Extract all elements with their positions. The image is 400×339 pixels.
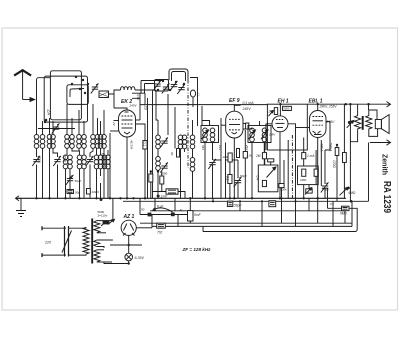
secondary winding heater2 [94, 250, 100, 262]
osc lower resistor a [149, 174, 153, 182]
row2 coil Ld3 [77, 155, 82, 169]
rf coil Lb3 [77, 135, 82, 149]
rf coil Lb1 [65, 135, 70, 149]
svg-text:280V, 255V: 280V, 255V [319, 104, 338, 108]
row2 coil Lf1 [102, 155, 107, 169]
svg-text:100: 100 [223, 155, 228, 159]
osc trimmer 3 [170, 81, 178, 91]
cap 50pF on bus2 [227, 201, 232, 206]
svg-text:0,1: 0,1 [330, 202, 335, 206]
left resistor comp [87, 189, 91, 195]
svg-text:6MΩ: 6MΩ [349, 191, 356, 195]
T1 wires [202, 121, 213, 199]
svg-text:50μF: 50μF [75, 179, 82, 183]
T2 trim arrow a [249, 130, 256, 139]
electrolytic terminal b [171, 212, 175, 216]
tube AZ1 [121, 220, 152, 253]
svg-text:5mF: 5mF [194, 213, 202, 217]
svg-text:702: 702 [157, 231, 163, 235]
T2 wires [252, 121, 260, 198]
antenna coil La1 [34, 135, 39, 149]
osc feed wire b [145, 84, 156, 94]
middle verticals [213, 118, 238, 198]
row2 coil Ld2 [68, 155, 73, 169]
bus junction dots [35, 195, 352, 203]
grid resistor R2 [228, 175, 232, 184]
tube EBL1 [296, 104, 331, 198]
output primary zigzag [366, 114, 372, 132]
padder box 241 [99, 91, 109, 98]
avc verticals [304, 138, 316, 199]
EH1 shield box [267, 104, 307, 150]
detector thick wire [264, 143, 266, 153]
terminal drop [368, 104, 370, 201]
svg-text:1 mA: 1 mA [307, 154, 314, 158]
output coupling cap [321, 182, 329, 192]
rf coil Lc3 [98, 135, 103, 149]
svg-text:C4: C4 [256, 176, 260, 180]
osc trimmer 1 [153, 80, 161, 90]
output transformer core [362, 116, 364, 130]
speaker bus dots [279, 103, 370, 146]
svg-text:220: 220 [44, 241, 51, 245]
osc junction dots [157, 80, 185, 91]
osc coil L17b [182, 135, 187, 149]
svg-text:EF 9: EF 9 [229, 98, 240, 104]
svg-text:50: 50 [170, 152, 174, 156]
antenna coil La3 [47, 135, 52, 149]
gang dash line [187, 80, 189, 168]
secondary winding heater1 [94, 240, 100, 247]
tone cap 6M [203, 206, 357, 231]
avc box resistor b [314, 169, 318, 176]
svg-text:0,1mF: 0,1mF [158, 195, 168, 199]
osc feed wire a [141, 81, 163, 94]
svg-text:ZA: ZA [47, 109, 52, 116]
secondary winding HT [94, 221, 100, 233]
rf choke [121, 87, 135, 90]
transformer taps [97, 221, 113, 262]
svg-text:5000: 5000 [283, 107, 289, 111]
svg-text:1MΩ: 1MΩ [300, 178, 307, 182]
osc core rect [177, 149, 180, 158]
rf coil Lc1 [91, 135, 96, 149]
svg-text:50pF: 50pF [234, 204, 243, 208]
mains transformer primary terminals [42, 226, 63, 257]
screen resistor R1 [143, 141, 147, 150]
cap on bus2 b [269, 201, 276, 207]
svg-text:2=110v: 2=110v [98, 214, 108, 218]
svg-text:22: 22 [144, 105, 149, 111]
electrolytic terminal a [148, 213, 152, 217]
osc lower dots [150, 170, 160, 172]
osc wire right2 [201, 106, 203, 126]
oscillator loop [169, 69, 188, 80]
electrolytic arc arrow [153, 208, 173, 212]
bus4/5 right links [345, 201, 352, 226]
tone pot 6M [340, 187, 351, 196]
osc shield box [155, 80, 169, 92]
svg-text:AZ 1: AZ 1 [123, 214, 135, 220]
cap 5mF [188, 198, 194, 223]
cap C4b [67, 190, 74, 194]
speaker terminal bottom [370, 140, 391, 145]
osc section verticals [153, 90, 193, 198]
avc resistor top [302, 153, 306, 159]
T1 bottom trimmer [208, 159, 216, 169]
svg-text:4,5V: 4,5V [136, 94, 140, 101]
rf coil Lc2 [95, 135, 100, 149]
osc coil L18 [190, 135, 195, 149]
avc trim arrow [305, 188, 312, 195]
osc trimmer 5 [160, 137, 168, 147]
det verticals [271, 140, 289, 198]
svg-text:ZF = 128 kHz: ZF = 128 kHz [182, 247, 212, 252]
left bank top verticals [43, 104, 105, 135]
speaker terminal top [387, 102, 391, 108]
svg-text:EH 1: EH 1 [278, 99, 289, 105]
det cap [268, 159, 274, 162]
svg-text:2V: 2V [112, 121, 116, 127]
osc trimmer 2 [162, 83, 170, 93]
cathode resistor [343, 153, 347, 163]
tube EK2 [110, 94, 145, 198]
antenna coil La4 [51, 135, 56, 149]
EH1 box resistor vert [274, 108, 277, 115]
osc trimmer 6 [160, 162, 168, 172]
osc wire right [190, 78, 198, 127]
IF T1 coil a [203, 128, 208, 142]
trimmer C4 [66, 175, 74, 185]
hum pot arrow [347, 120, 354, 127]
speaker [375, 115, 389, 134]
volume pot box [258, 165, 278, 192]
mid top bus [140, 104, 267, 106]
trimmer C4 dot [69, 176, 72, 179]
antenna coil riser [37, 78, 51, 135]
svg-text:0,1: 0,1 [226, 176, 230, 181]
hv cap 702 [157, 223, 166, 228]
choke wire [135, 89, 156, 91]
IF T2 coil b [262, 128, 267, 142]
svg-text:RA 1239: RA 1239 [381, 181, 393, 213]
svg-text:0,1 mA: 0,1 mA [243, 101, 255, 105]
cap C5 [234, 177, 242, 187]
svg-text:50μF: 50μF [240, 174, 247, 178]
avc box [298, 166, 319, 185]
output bottom wire [369, 129, 378, 137]
svg-text:7000: 7000 [322, 188, 329, 192]
shield box A inner [44, 76, 87, 122]
IF transformer T1 box [201, 126, 219, 143]
EH1 box arrow [269, 111, 274, 117]
row2 coil Ld1 [63, 155, 68, 169]
osc coil L15 [156, 135, 161, 149]
svg-text:ZF1: ZF1 [218, 144, 222, 151]
svg-text:1,8V: 1,8V [269, 133, 276, 137]
transformer core [91, 219, 93, 264]
screen resistor EF9 [228, 149, 240, 163]
shield box C [70, 89, 84, 98]
osc padder cap [190, 90, 195, 97]
EH1 box resistor horiz [283, 106, 292, 110]
svg-text:6,35V: 6,35V [135, 256, 145, 260]
svg-text:364: 364 [201, 145, 205, 150]
svg-text:0,1: 0,1 [143, 142, 147, 147]
field wire top [357, 104, 359, 113]
bus5 [152, 225, 352, 227]
wire box to choke [109, 90, 121, 94]
EF9 cathode resistor [243, 130, 253, 198]
svg-text:2M: 2M [255, 154, 261, 158]
drops bus to lower buses [155, 198, 333, 226]
fuse blob [101, 221, 109, 226]
row2 coil Le2 [98, 155, 103, 169]
svg-text:10kΩ: 10kΩ [92, 190, 100, 194]
svg-text:Zenith: Zenith [381, 154, 388, 175]
pot resistor [262, 180, 266, 186]
svg-text:8 μF: 8 μF [157, 205, 164, 209]
avc box resistor a [302, 169, 306, 176]
svg-text:ZF2: ZF2 [245, 144, 249, 151]
IF T2 coil a [250, 128, 255, 142]
ground [16, 198, 26, 216]
rf coil Lc4 [102, 135, 107, 149]
mains switch [62, 226, 74, 257]
svg-text:46,334: 46,334 [130, 140, 134, 150]
link dot [44, 121, 46, 123]
svg-text:1500: 1500 [161, 172, 168, 176]
field resistor drop [349, 104, 351, 201]
transformer primary winding [74, 227, 86, 255]
hum pot dot [348, 121, 351, 124]
rectifier wire [140, 198, 187, 228]
det dash vertical [291, 135, 293, 198]
tuning cap C3 [86, 156, 94, 166]
junction dots top-left [71, 76, 89, 94]
det cap2 [279, 184, 284, 188]
svg-text:6MΩ: 6MΩ [340, 212, 347, 216]
antenna coil La2 [40, 135, 45, 149]
tuning cap C2 [53, 156, 61, 166]
T2 trim arrow b [261, 130, 268, 139]
EK2 grid wires [132, 93, 148, 198]
svg-text:245V: 245V [242, 107, 252, 111]
antenna [14, 70, 35, 101]
bus3 [150, 210, 345, 212]
IF transformer T2 box [248, 126, 271, 143]
IF T1 coil b [210, 128, 215, 142]
tube EF9 [221, 105, 252, 198]
svg-text:3000: 3000 [37, 156, 41, 163]
rf coil Lb4 [82, 135, 87, 149]
osc coil L17a [178, 135, 183, 149]
svg-text:3000: 3000 [63, 155, 67, 162]
oscillator loop inner [172, 72, 186, 82]
row2 coil Le1 [94, 155, 99, 169]
pilot lamp [104, 244, 142, 265]
field zigzag [355, 114, 361, 131]
top bus right [307, 103, 390, 105]
link trimmer [52, 123, 60, 133]
pot wiper arrow [267, 167, 276, 178]
left bank lower verticals [37, 133, 111, 198]
az1 feed arrow [108, 219, 115, 224]
row2 coil Ld4 [82, 155, 87, 169]
field bottom link [350, 130, 357, 142]
svg-text:4μ: 4μ [180, 208, 184, 212]
shield box A outer [50, 71, 81, 120]
screen feed resistor [335, 148, 339, 156]
shield box B [67, 85, 88, 105]
osc coil L16 [156, 157, 161, 171]
main ground bus [16, 197, 346, 199]
row2 coil Lf2 [106, 155, 111, 169]
osc trimmer 4 [177, 84, 185, 94]
tube EH1 [266, 104, 296, 198]
det resistor 2M [262, 153, 266, 159]
svg-text:C: C [197, 93, 200, 97]
bus left chevron [16, 196, 20, 201]
cap 0,1mF [153, 189, 186, 199]
left bank link wire [38, 128, 75, 130]
osc lower resistor b [160, 176, 164, 184]
svg-text:50: 50 [141, 208, 145, 212]
rf coil Lb2 [70, 135, 75, 149]
svg-text:170Ω: 170Ω [332, 160, 336, 168]
az1 drop [112, 198, 114, 220]
right mid verticals [321, 122, 337, 209]
ZA dot [45, 119, 48, 122]
osc coil L19 [190, 158, 195, 172]
avc cap bottom [306, 189, 312, 193]
bus2 [123, 200, 369, 202]
svg-text:6000: 6000 [101, 153, 105, 160]
output top wire [369, 110, 377, 120]
tuning cap C1 [32, 156, 40, 166]
Lf wires [107, 150, 109, 198]
svg-text:50μ: 50μ [75, 191, 80, 195]
svg-text:245V: 245V [129, 104, 138, 108]
bus4 [140, 222, 352, 224]
trimmer cap top [91, 83, 99, 93]
T1 trim arrow [202, 130, 209, 139]
